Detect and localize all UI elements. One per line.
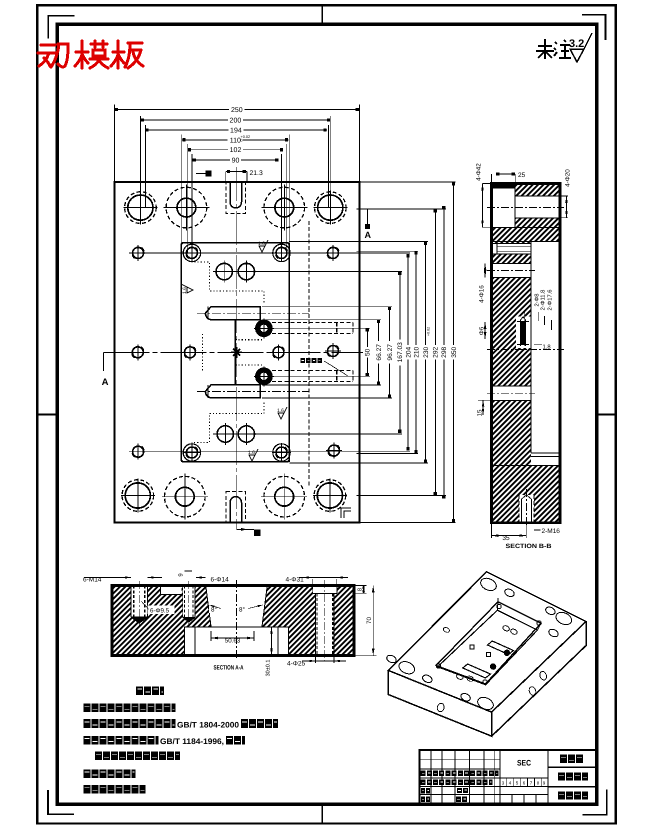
svg-text:GB/T 1804-2000: GB/T 1804-2000 <box>177 720 240 729</box>
svg-text:Φ6: Φ6 <box>478 326 485 335</box>
svg-text:2-Φ8: 2-Φ8 <box>533 293 540 306</box>
svg-text:4-Φ42: 4-Φ42 <box>476 163 483 181</box>
svg-text:6-Φ9.5: 6-Φ9.5 <box>150 608 170 615</box>
svg-text:2-Φ17.6: 2-Φ17.6 <box>547 289 554 310</box>
svg-text:30±0.1: 30±0.1 <box>265 660 271 677</box>
svg-text:50: 50 <box>365 348 372 356</box>
svg-text:292: 292 <box>433 346 440 357</box>
svg-text:A: A <box>365 230 372 240</box>
svg-text:204: 204 <box>405 346 412 357</box>
svg-text:35: 35 <box>502 535 510 542</box>
svg-text:2-M16: 2-M16 <box>542 528 561 535</box>
svg-text:230: 230 <box>423 346 430 357</box>
svg-text:+0.02: +0.02 <box>427 327 431 336</box>
svg-text:1.6: 1.6 <box>248 450 255 456</box>
svg-text:90: 90 <box>232 157 240 164</box>
svg-text:110: 110 <box>230 137 241 144</box>
svg-text:194: 194 <box>230 128 242 135</box>
svg-text:1.6: 1.6 <box>258 241 265 247</box>
svg-text:298: 298 <box>441 346 448 357</box>
svg-text:210: 210 <box>413 346 420 357</box>
svg-text:1.6: 1.6 <box>182 287 188 294</box>
svg-text:102: 102 <box>230 147 242 154</box>
svg-text:50.63: 50.63 <box>225 637 241 644</box>
svg-text:6-Φ14: 6-Φ14 <box>211 577 230 584</box>
svg-text:SECTION A-A: SECTION A-A <box>214 665 244 672</box>
svg-text:70: 70 <box>366 617 373 625</box>
svg-text:96.27: 96.27 <box>387 344 394 361</box>
svg-text:15: 15 <box>476 409 483 417</box>
svg-text:A: A <box>102 377 109 388</box>
svg-text:2-Φ11.8: 2-Φ11.8 <box>540 290 547 311</box>
svg-text:4-Φ20: 4-Φ20 <box>565 169 572 187</box>
svg-text:8°: 8° <box>239 607 245 614</box>
svg-text:SEC: SEC <box>517 759 531 768</box>
svg-text:4-Φ16: 4-Φ16 <box>478 285 485 303</box>
svg-text:167.03: 167.03 <box>397 342 404 363</box>
svg-text:25: 25 <box>518 172 526 179</box>
svg-text:4-Φ25: 4-Φ25 <box>287 661 306 668</box>
svg-text:SECTION B-B: SECTION B-B <box>506 543 553 550</box>
svg-text:1.6: 1.6 <box>277 408 284 414</box>
svg-text:8°: 8° <box>211 607 217 614</box>
svg-text:1.8: 1.8 <box>543 344 551 351</box>
svg-text:200: 200 <box>230 118 242 125</box>
svg-text:250: 250 <box>231 107 243 114</box>
svg-text:350: 350 <box>451 346 458 357</box>
svg-text:GB/T 1184-1996,: GB/T 1184-1996, <box>160 737 224 746</box>
svg-text:8: 8 <box>357 588 364 591</box>
svg-text:0: 0 <box>241 139 243 143</box>
svg-text:21.3: 21.3 <box>250 170 263 177</box>
svg-text:3.2: 3.2 <box>569 38 584 50</box>
svg-text:66.27: 66.27 <box>376 344 383 361</box>
